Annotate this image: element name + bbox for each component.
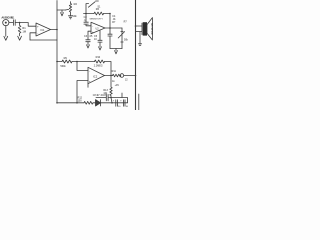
wire joining branches <box>110 48 122 50</box>
svg-text:R10: R10 <box>96 56 101 59</box>
ground arrow center <box>115 49 118 54</box>
svg-text:10: 10 <box>118 106 121 108</box>
capacitor C5 branch <box>98 31 102 50</box>
svg-text:J2: J2 <box>125 79 128 82</box>
svg-text:IC2: IC2 <box>93 75 98 79</box>
svg-text:560k: 560k <box>60 65 66 68</box>
wire into U1 + input <box>28 23 36 27</box>
svg-text:R9: R9 <box>64 57 68 60</box>
svg-text:R7: R7 <box>124 20 128 23</box>
svg-text:R11: R11 <box>112 70 117 73</box>
output jack circle <box>120 74 124 78</box>
U2 output wire <box>105 27 122 29</box>
node H speaker top <box>135 25 137 27</box>
svg-text:100: 100 <box>78 100 83 103</box>
node E lower rail junction <box>56 61 58 63</box>
wire C2 drop <box>85 14 87 22</box>
ground under R2 <box>68 16 72 19</box>
upper bottom wire <box>96 97 106 99</box>
resistor R9 <box>62 60 72 63</box>
stub under U3 <box>87 84 89 88</box>
node rail top <box>109 13 111 15</box>
node F junction <box>76 61 78 63</box>
svg-text:.05: .05 <box>89 35 93 38</box>
svg-text:+: + <box>113 100 115 103</box>
svg-text:IC1: IC1 <box>41 29 46 32</box>
bottom wire from bus <box>57 102 84 104</box>
svg-text:C7 .0047: C7 .0047 <box>97 95 107 97</box>
node I bus output <box>135 75 137 77</box>
svg-text:C1: C1 <box>11 16 15 20</box>
capacitor C8 <box>106 94 108 100</box>
svg-text:SENSITIVITY: SENSITIVITY <box>90 19 104 21</box>
node J <box>110 97 112 99</box>
wire rail to output <box>109 14 111 29</box>
wire caps row <box>112 102 128 104</box>
U1 output wire <box>51 29 58 31</box>
resistor R10 <box>95 60 105 63</box>
jack J1 input connector <box>3 20 9 26</box>
wire C2 to U2 input <box>86 24 91 25</box>
wire into U3 - input <box>77 62 88 71</box>
node G output junction <box>110 75 112 77</box>
ground under jack <box>4 26 8 41</box>
resistor R1 <box>18 23 21 36</box>
svg-text:10: 10 <box>126 106 129 108</box>
svg-text:+: + <box>92 30 94 34</box>
capacitor C6 electrolytic <box>123 100 125 106</box>
capacitor C1 <box>13 20 15 26</box>
U3 + input wire <box>77 81 88 103</box>
potentiometer R2 <box>69 2 71 16</box>
capacitor C2 <box>84 22 88 24</box>
node A junction <box>19 22 21 24</box>
speaker terminal wires <box>136 23 143 34</box>
resistor R13 vertical <box>110 76 112 98</box>
ground bars under return <box>138 44 141 46</box>
node C rail junction <box>85 13 87 15</box>
svg-text:+9V: +9V <box>115 84 120 87</box>
U1 feedback wire <box>30 39 57 41</box>
svg-text:50k: 50k <box>124 39 129 42</box>
wire C1 to node A <box>15 22 28 24</box>
svg-text:R7: R7 <box>112 21 116 24</box>
svg-text:R2: R2 <box>74 2 78 6</box>
second border line <box>138 94 140 110</box>
svg-text:R1: R1 <box>22 26 26 30</box>
wire stub C7 <box>121 93 123 98</box>
U2 + input wire <box>88 31 91 39</box>
U3 output wire <box>105 75 113 77</box>
svg-text:8Ω SPKR: 8Ω SPKR <box>150 23 154 35</box>
ground under C3 <box>87 42 90 48</box>
svg-text:1M: 1M <box>22 30 26 34</box>
node L <box>111 102 113 104</box>
svg-text:-: - <box>37 31 38 35</box>
svg-text:-: - <box>89 69 90 73</box>
right bus wire <box>135 0 137 110</box>
svg-text:C3: C3 <box>84 35 88 38</box>
svg-text:1k: 1k <box>112 80 115 83</box>
node K <box>56 102 58 104</box>
resistor R6 <box>94 12 104 15</box>
resistor R12 <box>84 101 93 104</box>
node B output junction <box>56 29 58 31</box>
wire C8 to corner <box>108 98 127 103</box>
switch S1 <box>86 1 98 14</box>
svg-text:10k: 10k <box>72 14 77 18</box>
lower rail wire <box>57 61 62 63</box>
svg-text:2.2MEG: 2.2MEG <box>94 64 103 67</box>
wire R9 to R10 <box>72 61 95 63</box>
speaker return wire <box>139 32 141 44</box>
capacitor C5 electrolytic <box>116 100 118 106</box>
svg-text:+: + <box>37 24 39 28</box>
wire to volume pot <box>57 9 66 11</box>
capacitor C3 <box>86 40 90 42</box>
ground stub arrow <box>61 10 64 16</box>
long vertical bus wire <box>56 1 58 103</box>
wire node J to L <box>111 98 112 103</box>
resistor R8 vertical <box>108 28 112 49</box>
diode D1 <box>93 100 112 106</box>
svg-text:-: - <box>92 24 93 28</box>
wire jack to C1 <box>9 22 13 24</box>
node D <box>109 27 111 29</box>
ground under R1 <box>18 36 22 40</box>
op-amp U3 <box>88 67 105 83</box>
wire R10 to corner <box>105 62 112 76</box>
speaker LS1 <box>143 22 147 35</box>
wire jack to bus <box>124 75 136 77</box>
svg-text:10: 10 <box>94 38 97 41</box>
resistor R11 <box>113 74 121 77</box>
feedback rail wire <box>84 13 95 15</box>
svg-text:+: + <box>120 100 122 103</box>
U1 inverting input wire <box>30 33 36 40</box>
op-amp U2 <box>91 22 105 33</box>
op-amp U1 <box>36 23 51 36</box>
trimmer R7 <box>118 28 124 49</box>
